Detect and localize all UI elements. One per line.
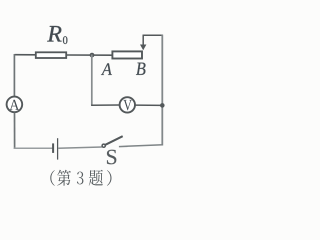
- ammeter A1: [7, 97, 23, 113]
- node junction right: [160, 103, 165, 108]
- wire top-left segment: [15, 54, 36, 56]
- battery cell: [52, 143, 54, 153]
- wire battery to switch: [58, 147, 102, 148]
- rheostat AB: [112, 51, 142, 58]
- wire left upper: [13, 54, 15, 96]
- wire left lower: [14, 113, 16, 149]
- caption (第 3 题): [50, 170, 111, 186]
- label A: [101, 63, 112, 75]
- wire voltmeter branch horizontal: [91, 104, 119, 106]
- wire switch to right corner: [119, 145, 163, 147]
- switch lever: [105, 136, 122, 145]
- label B: [136, 63, 145, 75]
- wire top-right horizontal: [143, 34, 164, 36]
- wire voltmeter to right: [135, 104, 162, 106]
- node junction top: [90, 53, 95, 58]
- label R0: [47, 26, 61, 42]
- resistor R0: [36, 52, 66, 58]
- switch S: [102, 144, 105, 147]
- wire voltmeter branch vertical: [91, 55, 93, 106]
- voltmeter V1: [120, 97, 135, 112]
- wire top-mid segment: [67, 54, 113, 56]
- label S: [107, 150, 116, 165]
- wire right vertical: [161, 35, 163, 146]
- wire bottom-left segment: [14, 147, 53, 149]
- wiper arrow: [142, 35, 144, 46]
